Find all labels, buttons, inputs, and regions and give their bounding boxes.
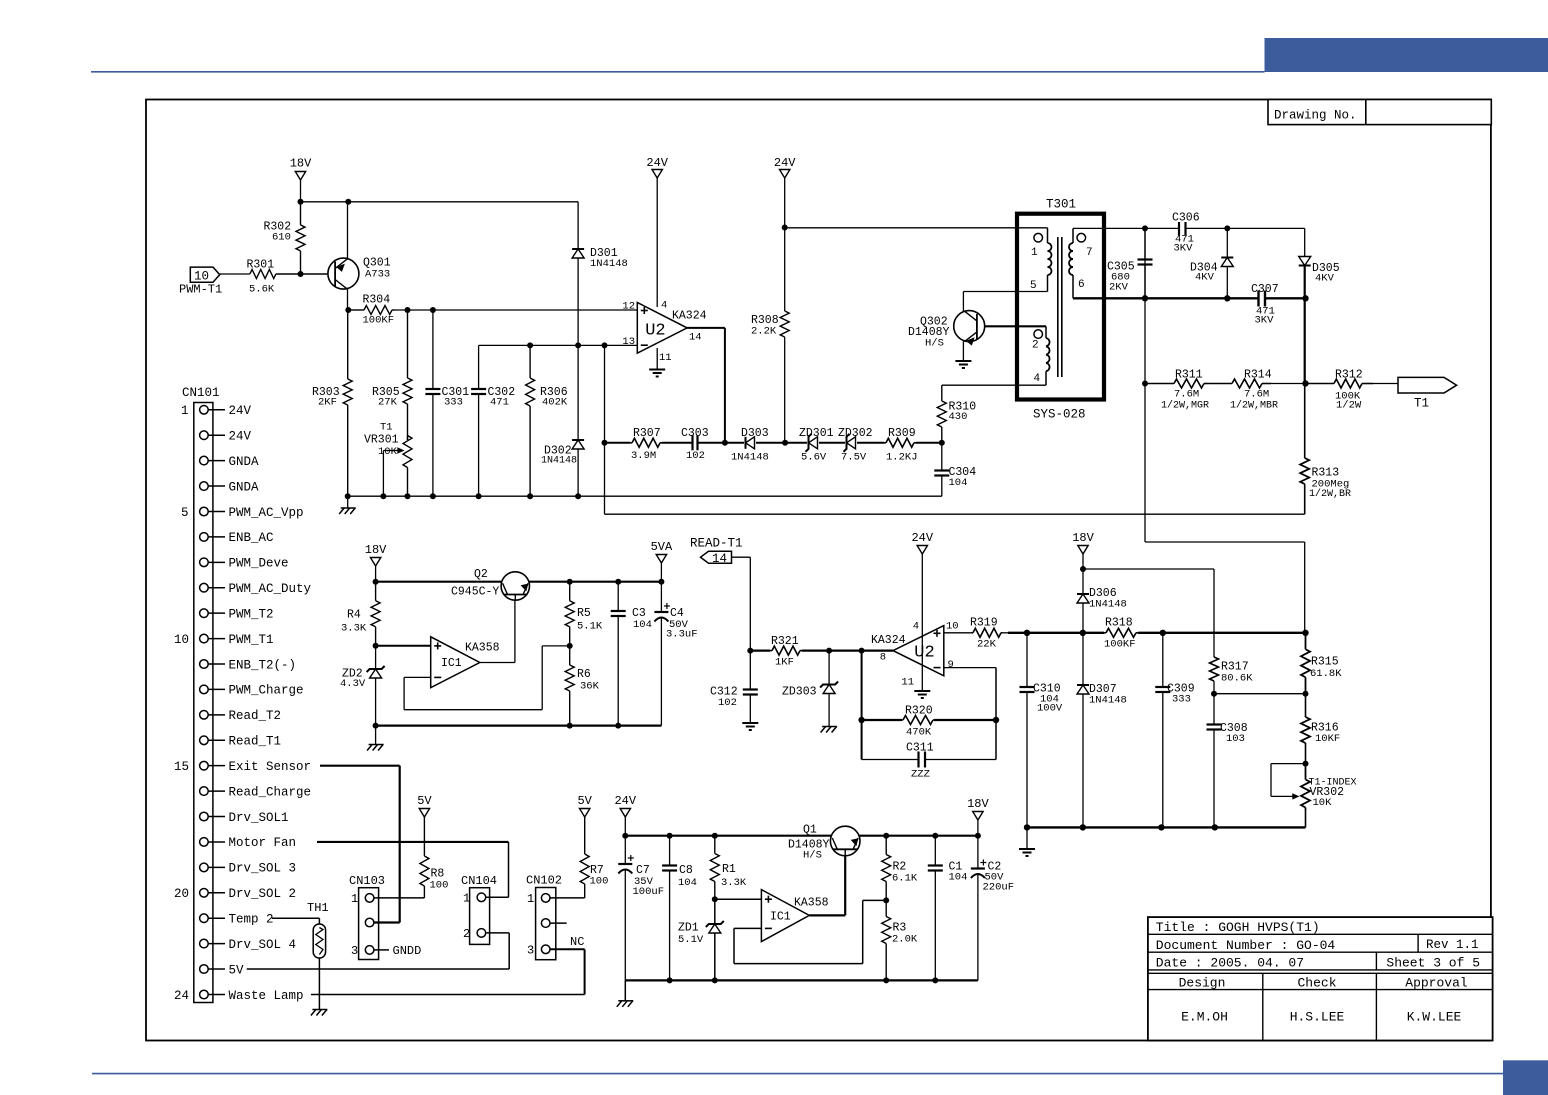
ground (U2a pin11) bbox=[649, 369, 665, 371]
svg-text:D303: D303 bbox=[741, 427, 769, 440]
wire D302 column bbox=[577, 345, 579, 496]
svg-text:1: 1 bbox=[527, 892, 534, 906]
svg-text:1.2KJ: 1.2KJ bbox=[886, 452, 918, 464]
svg-text:18V: 18V bbox=[967, 797, 989, 811]
svg-text:24V: 24V bbox=[614, 794, 636, 808]
capacitor C4 3.3uF bbox=[660, 582, 662, 612]
capacitor C306 bbox=[1178, 222, 1180, 236]
wire bias ground rail bbox=[625, 979, 978, 981]
CN101 pin 20 Drv_SOL 2 bbox=[200, 889, 209, 898]
resistor R311 7.6M bbox=[1145, 383, 1174, 385]
wire D305 column down bbox=[1304, 298, 1306, 383]
wire CN103 pin3 GNDD bbox=[374, 949, 389, 951]
resistor R303 bbox=[347, 310, 349, 379]
CN101 pin 19 Drv_SOL 3 bbox=[200, 863, 209, 872]
svg-text:3.9M: 3.9M bbox=[631, 450, 656, 462]
svg-text:Rev 1.1: Rev 1.1 bbox=[1426, 938, 1479, 952]
node R316 bottom bbox=[1303, 761, 1309, 767]
svg-text:5.1V: 5.1V bbox=[678, 934, 704, 946]
node R2 bottom bbox=[883, 897, 889, 903]
ground (C312) bbox=[742, 722, 758, 724]
capacitor C3 104 bbox=[617, 582, 619, 611]
svg-text:PWM_AC_Vpp: PWM_AC_Vpp bbox=[229, 506, 304, 520]
wire Q302 base bbox=[985, 325, 1046, 327]
resistor R3 2.0K bbox=[885, 900, 887, 916]
wire CN102 pin1 to R7 bbox=[550, 897, 585, 899]
svg-text:6.1K: 6.1K bbox=[892, 873, 918, 885]
svg-text:C307: C307 bbox=[1251, 283, 1279, 296]
wire IC1a output to Q2 base bbox=[480, 662, 515, 664]
svg-text:100: 100 bbox=[590, 876, 609, 888]
svg-text:333: 333 bbox=[444, 397, 463, 409]
svg-text:H.S.LEE: H.S.LEE bbox=[1290, 1009, 1345, 1024]
svg-text:GNDD: GNDD bbox=[393, 944, 422, 958]
wire U2b output row bbox=[750, 649, 770, 651]
svg-text:K.W.LEE: K.W.LEE bbox=[1407, 1009, 1462, 1024]
wire 18V node row bbox=[1082, 554, 1084, 569]
svg-text:100uF: 100uF bbox=[633, 886, 665, 898]
Drawing No. box bbox=[1268, 100, 1491, 125]
top rule line bbox=[91, 71, 1265, 73]
svg-text:220uF: 220uF bbox=[983, 882, 1015, 894]
svg-text:8: 8 bbox=[880, 652, 886, 664]
CN101 pin 10 PWM_T1 bbox=[200, 634, 209, 643]
svg-text:22K: 22K bbox=[977, 639, 997, 651]
wire D301 column bbox=[577, 202, 579, 346]
wire CN104 pin2 to 5V bbox=[486, 932, 510, 934]
svg-text:13: 13 bbox=[622, 336, 635, 348]
svg-text:R314: R314 bbox=[1244, 369, 1272, 382]
svg-text:R309: R309 bbox=[888, 427, 916, 440]
svg-text:3.3uF: 3.3uF bbox=[666, 629, 698, 641]
svg-text:KA324: KA324 bbox=[871, 634, 906, 647]
svg-text:SYS-028: SYS-028 bbox=[1033, 408, 1086, 422]
svg-text:T1: T1 bbox=[1414, 397, 1429, 411]
svg-text:PWM_Charge: PWM_Charge bbox=[229, 684, 304, 698]
wire R316 top link bbox=[1214, 693, 1306, 695]
svg-text:103: 103 bbox=[1226, 733, 1245, 745]
node ZD2 bottom bbox=[373, 723, 379, 729]
svg-text:5V: 5V bbox=[577, 794, 592, 808]
svg-text:2.0K: 2.0K bbox=[892, 934, 918, 946]
node output row junctions bbox=[747, 648, 753, 654]
svg-text:5: 5 bbox=[1030, 280, 1037, 292]
diode D304 bbox=[1226, 228, 1228, 298]
capacitor C8 104 bbox=[669, 836, 671, 866]
capacitor C305 bbox=[1144, 228, 1146, 298]
svg-text:C311: C311 bbox=[906, 742, 934, 755]
svg-text:T301: T301 bbox=[1046, 198, 1076, 212]
svg-text:Drv_SOL 3: Drv_SOL 3 bbox=[229, 862, 297, 876]
wire Q2 emitter rail bbox=[529, 581, 661, 583]
svg-text:KA324: KA324 bbox=[672, 310, 707, 323]
wire sense rail bbox=[1008, 632, 1104, 634]
svg-text:5VA: 5VA bbox=[651, 540, 673, 554]
svg-text:C8: C8 bbox=[679, 864, 693, 877]
CN101 pin 9 PWM_T2 bbox=[200, 609, 209, 618]
svg-text:5.6V: 5.6V bbox=[801, 452, 827, 464]
node chain right bbox=[939, 440, 945, 446]
svg-text:Read_Charge: Read_Charge bbox=[229, 785, 312, 799]
resistor R316 10KF bbox=[1305, 694, 1307, 716]
node 24V rail left bbox=[622, 833, 628, 839]
svg-text:R307: R307 bbox=[633, 427, 661, 440]
svg-text:14: 14 bbox=[689, 332, 702, 344]
wire Q2 collector rail bbox=[376, 581, 502, 583]
svg-text:100: 100 bbox=[430, 880, 449, 892]
transistor Q1 D1408Y H/S bbox=[830, 826, 860, 856]
title block bbox=[1148, 917, 1493, 1040]
resistor R301 bbox=[220, 273, 250, 275]
svg-text:102: 102 bbox=[718, 697, 737, 709]
schematic border frame bbox=[146, 100, 1491, 1041]
wire R317 column bbox=[1213, 569, 1215, 657]
wire IC1b output to Q1 base bbox=[809, 914, 845, 916]
resistor R314 7.6M bbox=[1209, 383, 1232, 385]
transistor Q2 C945C-Y bbox=[501, 572, 529, 600]
svg-text:11: 11 bbox=[659, 352, 672, 364]
svg-text:1N4148: 1N4148 bbox=[541, 456, 577, 467]
capacitor C302 bbox=[478, 345, 480, 389]
svg-text:333: 333 bbox=[1172, 694, 1191, 706]
wire U2a output bbox=[687, 327, 725, 329]
wire HV thick rail pin6 bbox=[1073, 297, 1259, 299]
resistor R309 bbox=[884, 442, 886, 444]
svg-text:R318: R318 bbox=[1105, 617, 1133, 630]
node 24V to T301 bbox=[782, 225, 788, 231]
node R320 left bbox=[858, 717, 864, 723]
svg-text:1KF: 1KF bbox=[775, 657, 794, 669]
svg-text:100V: 100V bbox=[1037, 703, 1063, 715]
svg-text:IC1: IC1 bbox=[770, 911, 791, 924]
capacitor C1 104 bbox=[934, 836, 936, 866]
power 18V (C2) bbox=[973, 812, 983, 821]
node top rail junctions bbox=[1142, 225, 1148, 231]
page top blue bar bbox=[1265, 38, 1548, 72]
svg-text:H/S: H/S bbox=[803, 850, 822, 862]
resistor R305 bbox=[407, 310, 409, 378]
power 18V (Q2) bbox=[370, 558, 380, 567]
op-amp IC1a KA358 bbox=[431, 637, 480, 688]
svg-text:Date : 2005. 04. 07: Date : 2005. 04. 07 bbox=[1156, 956, 1304, 971]
svg-text:R304: R304 bbox=[363, 294, 391, 307]
T301 winding 2-4 bbox=[1034, 330, 1043, 339]
potentiometer VR302 10K T1-INDEX bbox=[1305, 764, 1307, 780]
svg-text:Waste Lamp: Waste Lamp bbox=[229, 989, 304, 1003]
wire VR302 wiper loop bbox=[1271, 763, 1306, 765]
svg-text:5: 5 bbox=[181, 506, 189, 520]
CN101 pin 8 PWM_AC_Duty bbox=[200, 583, 209, 592]
svg-text:24V: 24V bbox=[229, 404, 252, 418]
resistor R319 22K bbox=[972, 632, 973, 634]
svg-text:100KF: 100KF bbox=[1104, 639, 1136, 651]
svg-text:U2: U2 bbox=[914, 644, 934, 663]
svg-text:5V: 5V bbox=[417, 794, 432, 808]
op-amp U2a KA324 bbox=[637, 303, 687, 354]
capacitor C7 100uF bbox=[624, 836, 626, 864]
node U2a out to chain bbox=[722, 440, 728, 446]
CN101 pin 3 GNDA bbox=[200, 456, 209, 465]
svg-text:R6: R6 bbox=[577, 668, 591, 681]
node R5 bottom bbox=[567, 643, 573, 649]
svg-text:READ-T1: READ-T1 bbox=[690, 537, 743, 551]
wire Temp 2 to TH1 bbox=[272, 917, 319, 919]
svg-text:430: 430 bbox=[949, 411, 968, 423]
wire Exit Sensor bbox=[320, 765, 400, 767]
svg-text:4: 4 bbox=[661, 300, 667, 312]
wire T301 pin4 to R310 bbox=[942, 384, 1046, 386]
svg-text:11: 11 bbox=[901, 677, 914, 689]
diode D305 bbox=[1304, 228, 1306, 256]
svg-text:1N4148: 1N4148 bbox=[1089, 695, 1127, 707]
wire comparator chain row bbox=[605, 442, 631, 444]
wire IC1b feedback loop bbox=[734, 927, 761, 929]
svg-text:4KV: 4KV bbox=[1195, 272, 1215, 284]
svg-text:1/2W,MBR: 1/2W,MBR bbox=[1230, 400, 1278, 412]
wire pin9 column bbox=[995, 668, 997, 760]
CN101 pin 12 PWM_Charge bbox=[200, 685, 209, 694]
svg-text:12: 12 bbox=[622, 301, 635, 313]
diode D307 bbox=[1082, 633, 1084, 685]
feedback long wire bbox=[605, 513, 1305, 515]
svg-text:104: 104 bbox=[949, 477, 968, 489]
svg-text:1: 1 bbox=[181, 404, 189, 418]
transistor Q301 A733 bbox=[328, 258, 359, 289]
svg-text:9: 9 bbox=[948, 659, 954, 671]
svg-text:24: 24 bbox=[174, 989, 189, 1003]
ground bus bbox=[348, 495, 942, 497]
svg-text:ZD303: ZD303 bbox=[782, 686, 817, 699]
svg-text:C303: C303 bbox=[681, 427, 709, 440]
svg-text:ZD302: ZD302 bbox=[838, 427, 873, 440]
resistor R1 3.3K bbox=[714, 836, 716, 854]
wire U2b power column bbox=[921, 554, 923, 691]
svg-text:10KF: 10KF bbox=[1315, 733, 1340, 745]
svg-text:Drv_SOL 4: Drv_SOL 4 bbox=[229, 938, 297, 952]
svg-text:1/2W: 1/2W bbox=[1336, 400, 1362, 412]
svg-text:18V: 18V bbox=[1072, 531, 1094, 545]
svg-text:R320: R320 bbox=[905, 705, 933, 718]
resistor R317 80.6K bbox=[1213, 656, 1215, 658]
power 24V (U2b) bbox=[917, 546, 927, 555]
svg-text:CN103: CN103 bbox=[349, 874, 385, 888]
capacitor C303 bbox=[662, 442, 693, 444]
CN101 pin 22 Drv_SOL 4 bbox=[200, 939, 209, 948]
CN101 pin 7 PWM_Deve bbox=[200, 558, 209, 567]
connector CN103 bbox=[359, 888, 379, 960]
svg-text:T1: T1 bbox=[380, 422, 393, 434]
wire U2b plus input bbox=[944, 632, 972, 634]
CN101 pin 18 Motor Fan bbox=[200, 838, 209, 847]
svg-text:R4: R4 bbox=[347, 609, 361, 622]
op-amp U2b KA324 (left pointing) bbox=[893, 626, 944, 676]
wire 24V rail to Q1 bbox=[625, 835, 831, 837]
svg-text:Drv_SOL1: Drv_SOL1 bbox=[229, 811, 289, 825]
wire 5V row bbox=[247, 968, 510, 970]
ground (C7) bbox=[624, 980, 626, 1000]
svg-text:20: 20 bbox=[174, 887, 189, 901]
svg-text:4: 4 bbox=[913, 621, 919, 633]
svg-text:1N4148: 1N4148 bbox=[590, 258, 628, 270]
wire U2 pin12 row bbox=[395, 309, 637, 311]
svg-text:2KV: 2KV bbox=[1109, 282, 1129, 294]
svg-text:TH1: TH1 bbox=[307, 901, 329, 915]
svg-text:5.6K: 5.6K bbox=[249, 284, 275, 296]
power 24V (R308) bbox=[780, 170, 790, 179]
svg-text:470K: 470K bbox=[906, 727, 932, 739]
capacitor C2 220uF bbox=[977, 836, 979, 869]
wire R320 feedback column left bbox=[861, 651, 863, 760]
svg-text:5.1K: 5.1K bbox=[577, 621, 603, 633]
svg-text:1N4148: 1N4148 bbox=[1089, 599, 1127, 611]
svg-text:7: 7 bbox=[1086, 247, 1093, 259]
svg-text:ZD1: ZD1 bbox=[678, 922, 699, 935]
node R304 left bbox=[345, 307, 351, 313]
wire HV divider link bbox=[1144, 384, 1146, 543]
svg-text:R319: R319 bbox=[970, 617, 998, 630]
svg-text:7.5V: 7.5V bbox=[841, 452, 867, 464]
node 18V rail junctions bbox=[298, 199, 304, 205]
svg-text:R321: R321 bbox=[771, 635, 799, 648]
resistor R8 100 bbox=[423, 817, 425, 856]
svg-text:R312: R312 bbox=[1335, 369, 1363, 382]
svg-text:1: 1 bbox=[351, 892, 358, 906]
T301 secondary winding 7-6 bbox=[1077, 233, 1086, 242]
svg-text:CN102: CN102 bbox=[526, 874, 562, 888]
svg-text:2: 2 bbox=[1032, 340, 1039, 352]
svg-text:Motor Fan: Motor Fan bbox=[229, 836, 297, 850]
svg-text:ENB_T2(-): ENB_T2(-) bbox=[229, 658, 297, 672]
svg-text:24V: 24V bbox=[911, 531, 933, 545]
diode D302 bbox=[572, 439, 584, 441]
svg-text:ENB_AC: ENB_AC bbox=[229, 531, 274, 545]
capacitor C307 bbox=[1257, 291, 1259, 307]
node R308 bottom bbox=[782, 440, 788, 446]
resistor R7 100 bbox=[584, 817, 586, 854]
wire IC1a plus input bbox=[376, 645, 431, 647]
connector CN102 bbox=[536, 888, 556, 960]
svg-text:Read_T1: Read_T1 bbox=[229, 735, 282, 749]
CN101 pin 4 GNDA bbox=[200, 482, 209, 491]
CN101 pin 17 Drv_SOL1 bbox=[200, 812, 209, 821]
CN101 pin 5 PWM_AC_Vpp bbox=[200, 507, 209, 516]
CN101 pin 21 Temp 2 bbox=[200, 914, 209, 923]
svg-text:C945C-Y: C945C-Y bbox=[451, 586, 499, 599]
node R1 bottom bbox=[712, 896, 718, 902]
svg-text:2: 2 bbox=[463, 927, 470, 941]
svg-text:3: 3 bbox=[351, 944, 358, 958]
CN101 pin 16 Read_Charge bbox=[200, 787, 209, 796]
diode D301 bbox=[572, 248, 584, 250]
potentiometer VR301 bbox=[407, 436, 409, 441]
power 5VA bbox=[656, 555, 666, 564]
svg-text:Exit Sensor: Exit Sensor bbox=[229, 760, 312, 774]
resistor R6 36K bbox=[569, 646, 571, 665]
svg-text:402K: 402K bbox=[542, 397, 568, 409]
wire Q301 collector-emitter bbox=[347, 202, 349, 259]
node sense rail junctions bbox=[1024, 630, 1030, 636]
ground (TH1) bbox=[312, 1009, 327, 1011]
CN101 pin 13 Read_T2 bbox=[200, 711, 209, 720]
capacitor C308 bbox=[1213, 694, 1215, 725]
CN101 pin 1 24V bbox=[200, 406, 209, 415]
svg-text:KA358: KA358 bbox=[465, 642, 500, 655]
svg-text:1: 1 bbox=[463, 891, 470, 905]
node 18V Q2 bbox=[373, 579, 379, 585]
capacitor C311 ZZZ bbox=[862, 759, 919, 761]
svg-text:3KV: 3KV bbox=[1174, 243, 1194, 255]
svg-text:10K: 10K bbox=[1313, 797, 1333, 809]
ground (U2b pin11) bbox=[914, 690, 930, 692]
svg-text:GNDA: GNDA bbox=[229, 455, 260, 469]
svg-text:PWM_AC_Duty: PWM_AC_Duty bbox=[229, 582, 312, 596]
CN101 pin 2 24V bbox=[200, 431, 209, 440]
svg-text:102: 102 bbox=[686, 450, 705, 462]
node chain left bbox=[602, 440, 608, 446]
svg-text:104: 104 bbox=[949, 872, 968, 884]
wire Motor Fan bbox=[317, 841, 509, 843]
svg-text:7.6M: 7.6M bbox=[1244, 389, 1269, 401]
node R315 bottom bbox=[1303, 691, 1309, 697]
zener ZD301 bbox=[785, 442, 807, 444]
power 5V (R8) bbox=[419, 809, 429, 818]
svg-text:18V: 18V bbox=[290, 157, 312, 171]
node R4 bottom bbox=[373, 643, 379, 649]
svg-text:10K: 10K bbox=[378, 446, 398, 458]
svg-text:R311: R311 bbox=[1175, 369, 1203, 382]
node base Q301 bbox=[298, 271, 304, 277]
svg-text:Document Number : GO-04: Document Number : GO-04 bbox=[1156, 938, 1336, 953]
svg-text:NC: NC bbox=[570, 935, 584, 949]
svg-text:VR301: VR301 bbox=[364, 434, 399, 447]
wire CN102 pin3 to Waste Lamp bbox=[550, 948, 585, 950]
svg-text:C306: C306 bbox=[1172, 212, 1200, 225]
resistor R321 1KF bbox=[770, 650, 772, 652]
svg-text:H/S: H/S bbox=[925, 338, 944, 350]
svg-text:1N4148: 1N4148 bbox=[731, 452, 769, 464]
svg-text:R315: R315 bbox=[1311, 656, 1339, 669]
thermistor TH1 bbox=[313, 924, 325, 958]
svg-text:14: 14 bbox=[712, 552, 727, 566]
resistor R312 100K bbox=[1305, 383, 1334, 385]
resistor R308 2.2K bbox=[784, 310, 786, 312]
CN101 pin 11 ENB_T2(-) bbox=[200, 660, 209, 669]
wire feedback column bbox=[604, 345, 606, 514]
svg-text:24V: 24V bbox=[774, 156, 796, 170]
T301 primary winding 1-5 bbox=[1034, 233, 1043, 242]
wire Q302 emitter bbox=[962, 342, 964, 361]
svg-text:24V: 24V bbox=[229, 430, 252, 444]
svg-text:PWM_T1: PWM_T1 bbox=[229, 633, 274, 647]
CN101 pin 15 Exit Sensor bbox=[200, 761, 209, 770]
svg-text:4: 4 bbox=[1034, 373, 1041, 385]
connector CN101 bbox=[194, 403, 213, 1003]
svg-text:80.6K: 80.6K bbox=[1221, 673, 1253, 685]
resistor R310 430 bbox=[941, 385, 943, 401]
svg-text:610: 610 bbox=[272, 232, 291, 244]
ground (bus) bbox=[347, 496, 349, 508]
svg-text:2KF: 2KF bbox=[318, 397, 337, 409]
power 24V (C7) bbox=[620, 809, 630, 818]
svg-text:E.M.OH: E.M.OH bbox=[1181, 1009, 1228, 1024]
svg-text:3: 3 bbox=[527, 943, 534, 957]
resistor R4 3.3K bbox=[375, 582, 377, 601]
svg-text:1/2W,BR: 1/2W,BR bbox=[1309, 488, 1351, 500]
svg-text:5V: 5V bbox=[229, 963, 245, 977]
svg-text:3.3K: 3.3K bbox=[341, 623, 367, 635]
svg-text:Temp 2: Temp 2 bbox=[229, 913, 274, 927]
svg-text:U2: U2 bbox=[645, 322, 665, 341]
